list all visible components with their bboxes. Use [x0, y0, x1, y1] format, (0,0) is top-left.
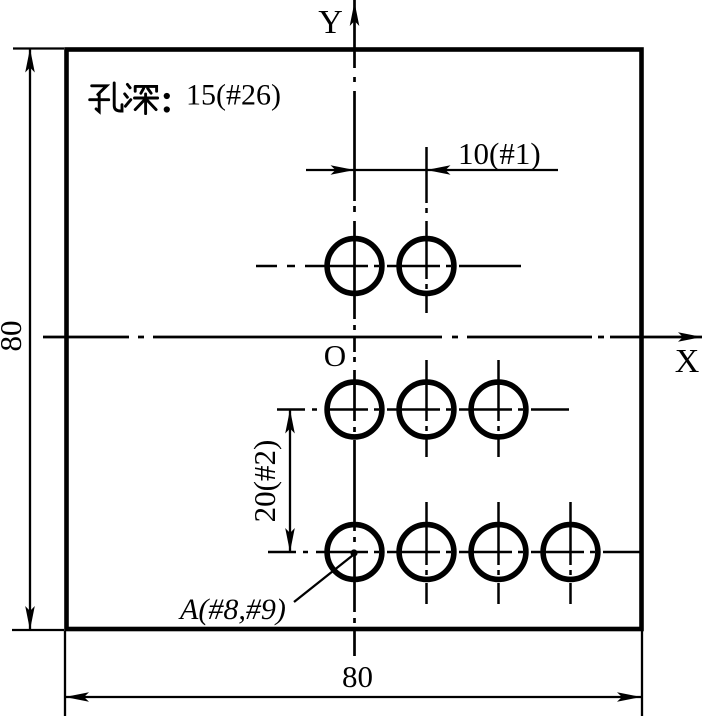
dim 80 left: down arrow	[25, 606, 35, 630]
X axis	[43, 336, 702, 339]
hole row3 c2	[399, 525, 454, 580]
dim 80 left: up arrow	[25, 49, 35, 73]
svg-text:O: O	[324, 338, 346, 373]
leader line to A	[294, 556, 353, 603]
hole depth note: hanzi 孔	[90, 83, 122, 112]
hole row1 c1	[327, 239, 382, 294]
centerline row3 col3 vertical	[497, 502, 500, 604]
centerline row3 horizontal	[268, 551, 641, 554]
dim 80 left: bottom extension line	[12, 629, 64, 631]
svg-text:15(#26): 15(#26)	[186, 79, 281, 112]
Y axis	[353, 0, 356, 656]
svg-text:80: 80	[342, 659, 373, 694]
dim 80 bottom: left extension line	[64, 631, 66, 716]
hole row2 c3	[471, 382, 526, 437]
dimension 10(#1) line	[306, 169, 558, 171]
dim 80 bottom: right arrow	[617, 692, 641, 702]
hole row2 c1	[327, 382, 382, 437]
dim 80 bottom: left arrow	[65, 692, 89, 702]
hole row1 c2	[399, 239, 454, 294]
dim 80 left: dimension line	[29, 49, 31, 631]
dim 80 left: top extension line	[13, 47, 64, 49]
centerline row3 col4 vertical	[569, 502, 572, 604]
hole row2 c2	[399, 382, 454, 437]
point A dot	[350, 549, 357, 556]
centerline row3 col2 vertical	[425, 502, 428, 604]
hole row3 c1 (point A)	[327, 525, 382, 580]
X axis arrow	[678, 332, 702, 342]
dimension 20(#2) up arrow	[285, 410, 295, 434]
hole depth note: hanzi 深	[125, 84, 158, 113]
centerline row1 col2 vertical	[425, 147, 428, 313]
hole row3 c4	[543, 525, 598, 580]
dim 80 bottom: dimension line	[65, 696, 641, 698]
dim 80 bottom: right extension line	[641, 631, 643, 716]
hole depth note: fullwidth colon	[164, 93, 170, 99]
centerline row2 col1 handled by Y axis; col2 vertical	[425, 360, 428, 457]
svg-text:Y: Y	[318, 4, 343, 41]
centerline row2 horizontal	[277, 408, 569, 411]
hole row3 c3	[471, 525, 526, 580]
dimension 10(#1) right-pointing arrow	[331, 165, 355, 175]
dimension 20(#2) line	[289, 410, 291, 553]
svg-text:20(#2): 20(#2)	[247, 440, 282, 523]
svg-text:10(#1): 10(#1)	[458, 136, 541, 171]
dimension 10(#1) left-pointing arrow	[427, 165, 451, 175]
Y axis arrow	[350, 2, 360, 26]
svg-text:A(#8,#9): A(#8,#9)	[178, 593, 286, 626]
svg-text:80: 80	[0, 321, 28, 352]
centerline row1 horizontal	[256, 265, 521, 268]
centerline row2 col3 vertical	[497, 360, 500, 457]
dimension 20(#2) down arrow	[285, 528, 295, 552]
plate outline	[67, 50, 642, 630]
svg-text:X: X	[675, 343, 700, 380]
